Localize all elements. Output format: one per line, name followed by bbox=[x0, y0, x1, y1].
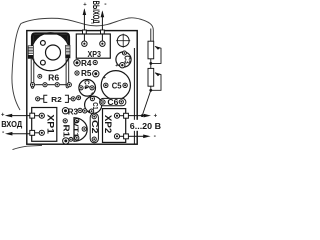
label 6...20 В bbox=[129, 120, 162, 131]
capacitor C3 bbox=[115, 51, 131, 69]
svg-text:R1: R1 bbox=[61, 125, 71, 138]
mounting hole (crosshair) bbox=[116, 34, 130, 48]
pot right solder tab (hatched) bbox=[66, 45, 70, 58]
output wire + arrow (right, -) bbox=[101, 1, 108, 30]
svg-text:С5: С5 bbox=[112, 81, 122, 90]
svg-text:ХР2: ХР2 bbox=[103, 115, 113, 133]
svg-text:6...20 В: 6...20 В bbox=[130, 122, 161, 131]
svg-text:ХР3: ХР3 bbox=[88, 49, 102, 59]
input wire + arrow (+) bbox=[1, 113, 30, 119]
capacitor C4 bbox=[79, 80, 96, 98]
external rheostat 1 bbox=[148, 29, 161, 69]
capacitor C2 (vertical) bbox=[90, 113, 99, 143]
svg-text:R4: R4 bbox=[81, 59, 92, 68]
enclosure outline bbox=[12, 18, 153, 110]
svg-text:С2: С2 bbox=[90, 120, 99, 134]
svg-text:С6: С6 bbox=[107, 98, 119, 107]
power wire + arrow (-) bbox=[128, 133, 156, 140]
connector XP3 bbox=[76, 30, 110, 59]
pot left leg rail bbox=[31, 59, 34, 89]
svg-text:R5: R5 bbox=[81, 69, 92, 78]
potentiometer body (R6 pot) bbox=[32, 33, 70, 71]
svg-text:ВХОД: ВХОД bbox=[1, 120, 22, 129]
capacitor C1 bbox=[85, 96, 102, 113]
board inner right edge line bbox=[133, 48, 135, 144]
svg-text:+: + bbox=[1, 113, 5, 119]
power wire + arrow (+) bbox=[128, 113, 157, 119]
pot left solder tab (hatched) bbox=[28, 46, 33, 59]
svg-text:R6: R6 bbox=[48, 73, 60, 82]
connector XP2 bbox=[103, 109, 129, 143]
resistor R4 bbox=[74, 59, 97, 68]
svg-text:ХР1: ХР1 bbox=[45, 114, 55, 133]
svg-text:+: + bbox=[115, 63, 118, 69]
resistor R1 (vertical) bbox=[61, 119, 71, 144]
R6 pad row with links bbox=[30, 83, 71, 87]
svg-text:С3: С3 bbox=[123, 55, 132, 64]
pad below R1/VT1 bbox=[69, 137, 73, 141]
transistor VT1 bbox=[71, 118, 87, 142]
board outline bbox=[27, 31, 137, 145]
pot right leg rail bbox=[66, 58, 69, 88]
input wire + arrow (-) bbox=[2, 129, 30, 136]
resistor R6 label and pad bbox=[38, 74, 42, 78]
capacitor C5 bbox=[101, 71, 130, 100]
svg-text:ВЫХОД: ВЫХОД bbox=[90, 1, 101, 24]
output wire + arrow (left, +) bbox=[83, 2, 88, 30]
svg-text:R3: R3 bbox=[68, 107, 79, 116]
external rheostat 2 bbox=[142, 68, 161, 115]
svg-text:С1: С1 bbox=[91, 102, 98, 110]
resistor R3 bbox=[62, 107, 89, 116]
pad near R2/C1 bbox=[77, 96, 81, 100]
resistor R5 bbox=[75, 69, 99, 78]
capacitor C6 bbox=[100, 98, 126, 107]
svg-text:+: + bbox=[154, 113, 158, 119]
connector XP1 bbox=[30, 108, 57, 142]
svg-text:R2: R2 bbox=[51, 95, 62, 104]
resistor R2 bbox=[36, 95, 76, 104]
wire from rheostats to + supply bbox=[142, 90, 151, 115]
enclosure bottom-left arc bbox=[13, 145, 43, 149]
svg-text:VT1: VT1 bbox=[71, 121, 80, 139]
